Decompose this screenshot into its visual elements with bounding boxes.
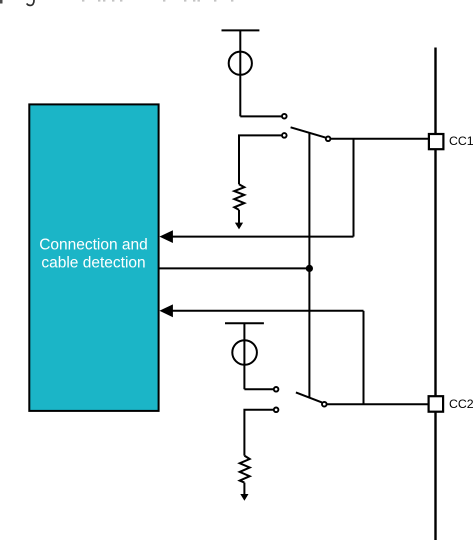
svg-text:CC2: CC2 (449, 397, 474, 411)
wire: R1 to ground (238, 210, 240, 223)
switch S1 bottom throw contact (282, 133, 287, 138)
arrowhead into block (top) (159, 230, 173, 243)
current source I1 top bar (222, 29, 260, 31)
switch S2 top throw contact (274, 387, 279, 392)
pad CC2 (429, 396, 444, 412)
switch S1 lever (291, 127, 326, 137)
ground arrow (bottom) (240, 494, 248, 501)
wire: CC1 sense branch vertical (353, 139, 355, 237)
wire: CC2 sense branch horizontal (171, 310, 364, 312)
cropped caption fragment: g descender bowl (27, 0, 34, 5)
resistor R1 (Rd pulldown, top) (234, 184, 244, 210)
resistor R2 (Rd pulldown, bottom) (240, 456, 250, 483)
wire: S2 bottom throw to resistor R2 (244, 410, 273, 456)
wire: block to switch levers (middle) (159, 267, 310, 269)
wire: current source I2 to switch S2 top throw (244, 388, 273, 390)
current source I1 circle (229, 52, 252, 75)
wire: R2 to ground (243, 483, 245, 495)
wire: current source to switch S1 top throw (240, 115, 281, 117)
wire: S1 common to CC1 pad (331, 138, 428, 140)
wire: CC2 sense branch vertical (363, 311, 365, 404)
wire: top supply through current source (239, 30, 241, 116)
wire: S2 common to CC2 pad (327, 403, 428, 405)
svg-text:cable detection: cable detection (41, 255, 145, 272)
wire: switch lever link vertical (S1 to S2) (308, 132, 310, 398)
wire: CC1 sense branch horizontal (171, 236, 354, 238)
switch S1 common contact (326, 137, 331, 142)
wire: supply through current source I2 (243, 323, 245, 389)
cropped caption fragment: faint letter feet dots (82, 0, 233, 2)
wire: S1 bottom throw to resistor R1 (239, 135, 282, 184)
node junction dot (306, 265, 313, 272)
svg-text:CC1: CC1 (449, 134, 474, 148)
arrowhead into block (bottom) (159, 304, 173, 317)
switch S2 bottom throw contact (274, 408, 279, 413)
ground arrow (top) (235, 223, 243, 230)
switch S2 lever (296, 392, 322, 402)
pad CC1 (429, 134, 444, 149)
current source I2 circle (232, 340, 257, 365)
current source I2 top bar (225, 322, 264, 324)
svg-text:Connection and: Connection and (39, 237, 148, 254)
switch S2 common contact (322, 402, 327, 407)
switch S1 top throw contact (282, 114, 287, 119)
block: Connection and cable detection (29, 104, 158, 411)
cropped caption fragment: letter edge at far left (0, 0, 3, 4)
wire: CC bus vertical line (434, 48, 436, 540)
